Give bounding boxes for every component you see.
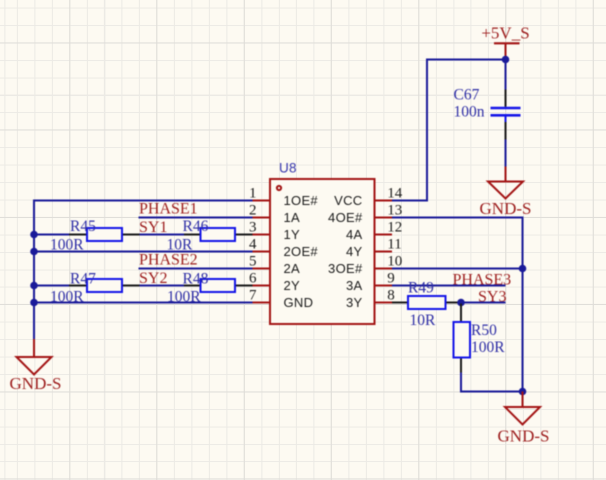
IC U8 body — [270, 179, 375, 324]
svg-text:1OE#: 1OE# — [284, 193, 319, 208]
U8 pin 11 (4Y) — [346, 237, 402, 259]
junction: R49/R50 node — [457, 299, 465, 307]
svg-text:4Y: 4Y — [346, 244, 363, 259]
svg-text:SY1: SY1 — [139, 219, 167, 236]
svg-text:5: 5 — [249, 254, 257, 270]
wire: pin 9 PHASE3 — [392, 285, 506, 287]
svg-text:PHASE2: PHASE2 — [139, 252, 198, 269]
junction: bus/row7 — [30, 299, 38, 307]
svg-text:3A: 3A — [346, 278, 363, 293]
svg-text:2Y: 2Y — [284, 278, 301, 293]
resistor R45 — [50, 218, 140, 254]
svg-text:100n: 100n — [454, 104, 485, 121]
svg-text:13: 13 — [387, 203, 402, 219]
svg-text:3: 3 — [249, 220, 257, 236]
svg-text:3OE#: 3OE# — [328, 261, 363, 276]
svg-text:100R: 100R — [471, 339, 505, 356]
wire: SY3 net R49 junction to right — [461, 302, 506, 304]
svg-text:14: 14 — [387, 186, 403, 202]
svg-text:R46: R46 — [183, 218, 209, 235]
svg-text:PHASE3: PHASE3 — [453, 272, 512, 289]
U8 pin 14 (VCC) — [334, 186, 403, 208]
net label SY2 — [139, 270, 167, 287]
wire: PHASE2 net to pin 5 — [139, 268, 253, 270]
svg-text:SY3: SY3 — [478, 289, 506, 306]
wire: PHASE1 net to pin 2 — [139, 217, 253, 219]
svg-text:3Y: 3Y — [346, 295, 363, 310]
junction: bottom right node — [519, 388, 527, 396]
svg-text:GND-S: GND-S — [498, 427, 550, 446]
svg-text:VCC: VCC — [334, 193, 362, 208]
wire: C67 to ground — [505, 140, 507, 167]
junction: bus/row4 — [30, 248, 38, 256]
resistor R47 — [50, 271, 140, 306]
svg-text:7: 7 — [249, 288, 257, 304]
junction: +5V node — [502, 56, 510, 64]
net label PHASE3 — [453, 272, 512, 289]
resistor R46 — [167, 218, 253, 254]
svg-text:1: 1 — [249, 186, 257, 202]
svg-text:4: 4 — [249, 237, 257, 253]
svg-text:11: 11 — [387, 237, 401, 253]
U8 pin 1 (1OE#) — [249, 186, 318, 208]
svg-text:GND: GND — [284, 295, 314, 310]
U8 pin 2 (1A) — [249, 203, 300, 225]
U8 pin 12 (4A) — [346, 220, 402, 242]
U8 pin 8 (3Y) — [346, 288, 395, 310]
svg-text:10R: 10R — [410, 312, 437, 329]
U8 pin 7 (GND) — [249, 288, 313, 310]
svg-text:C67: C67 — [454, 87, 480, 104]
wire: bus to R47 — [34, 285, 69, 287]
wire: pin 14 to +5V riser — [392, 60, 506, 201]
resistor R48 — [167, 271, 253, 306]
net label PHASE2 — [139, 252, 198, 269]
wire: left vertical bus — [33, 201, 35, 341]
U8 pin 6 (2Y) — [249, 271, 300, 293]
svg-text:R48: R48 — [183, 271, 209, 288]
wire: bus to R45 — [34, 234, 69, 236]
svg-text:4A: 4A — [346, 227, 363, 242]
svg-text:2A: 2A — [284, 261, 301, 276]
svg-text:R45: R45 — [70, 218, 96, 235]
svg-text:GND-S: GND-S — [480, 199, 532, 218]
net label PHASE1 — [139, 201, 198, 218]
svg-text:100R: 100R — [50, 289, 84, 306]
wire: R50 bottom to right vertical — [461, 373, 523, 392]
svg-text:R47: R47 — [70, 271, 96, 288]
svg-text:4OE#: 4OE# — [328, 210, 363, 225]
svg-text:U8: U8 — [279, 161, 297, 176]
U8 pin 9 (3A) — [346, 271, 395, 293]
svg-text:+5V_S: +5V_S — [481, 24, 529, 43]
ground GND-S left — [10, 339, 62, 393]
svg-text:8: 8 — [387, 288, 395, 304]
wire: pin 10 to right vertical — [392, 268, 523, 270]
svg-text:100R: 100R — [167, 289, 201, 306]
wire: row4 to pin 4 — [34, 251, 253, 253]
net label SY3 — [478, 289, 506, 306]
U8 pin 4 (2OE#) — [249, 237, 318, 259]
svg-text:6: 6 — [249, 271, 257, 287]
wire: pin 13 to right vertical — [392, 218, 523, 392]
capacitor C67 — [454, 87, 521, 140]
svg-text:2: 2 — [249, 203, 257, 219]
wire: SY2 net R47 to R48 — [140, 285, 185, 287]
resistor R49 — [392, 280, 461, 330]
svg-text:PHASE1: PHASE1 — [139, 201, 198, 218]
svg-text:100R: 100R — [50, 237, 84, 254]
svg-text:10: 10 — [387, 254, 402, 270]
U8 pin 3 (1Y) — [249, 220, 300, 242]
U8 pin 13 (4OE#) — [328, 203, 402, 225]
wire: row7 to pin 7 — [34, 302, 253, 304]
wire: SY1 net R45 to R46 — [140, 234, 185, 236]
wire: +5V node down to C67 — [505, 60, 507, 90]
wire: row1 to pin 1 — [33, 200, 253, 202]
ground GND-S top middle — [480, 167, 532, 219]
U8 pin 5 (2A) — [249, 254, 300, 276]
svg-text:2OE#: 2OE# — [284, 244, 319, 259]
svg-text:12: 12 — [387, 220, 402, 236]
U8 designator — [279, 161, 297, 176]
svg-text:R50: R50 — [471, 322, 497, 339]
junction: bus/R45 — [30, 231, 38, 239]
resistor R50 — [454, 304, 506, 373]
svg-text:GND-S: GND-S — [10, 374, 62, 393]
net label SY1 — [139, 219, 167, 236]
svg-text:1Y: 1Y — [284, 227, 301, 242]
ground GND-S bottom right — [498, 392, 550, 446]
svg-text:1A: 1A — [284, 210, 301, 225]
power port +5V_S — [481, 24, 529, 60]
junction: bus/R47 — [30, 282, 38, 290]
junction: pin10/right vertical — [519, 265, 527, 273]
U8 pin 10 (3OE#) — [328, 254, 402, 276]
svg-text:9: 9 — [387, 271, 395, 287]
svg-text:SY2: SY2 — [139, 270, 167, 287]
svg-text:R49: R49 — [408, 280, 434, 297]
